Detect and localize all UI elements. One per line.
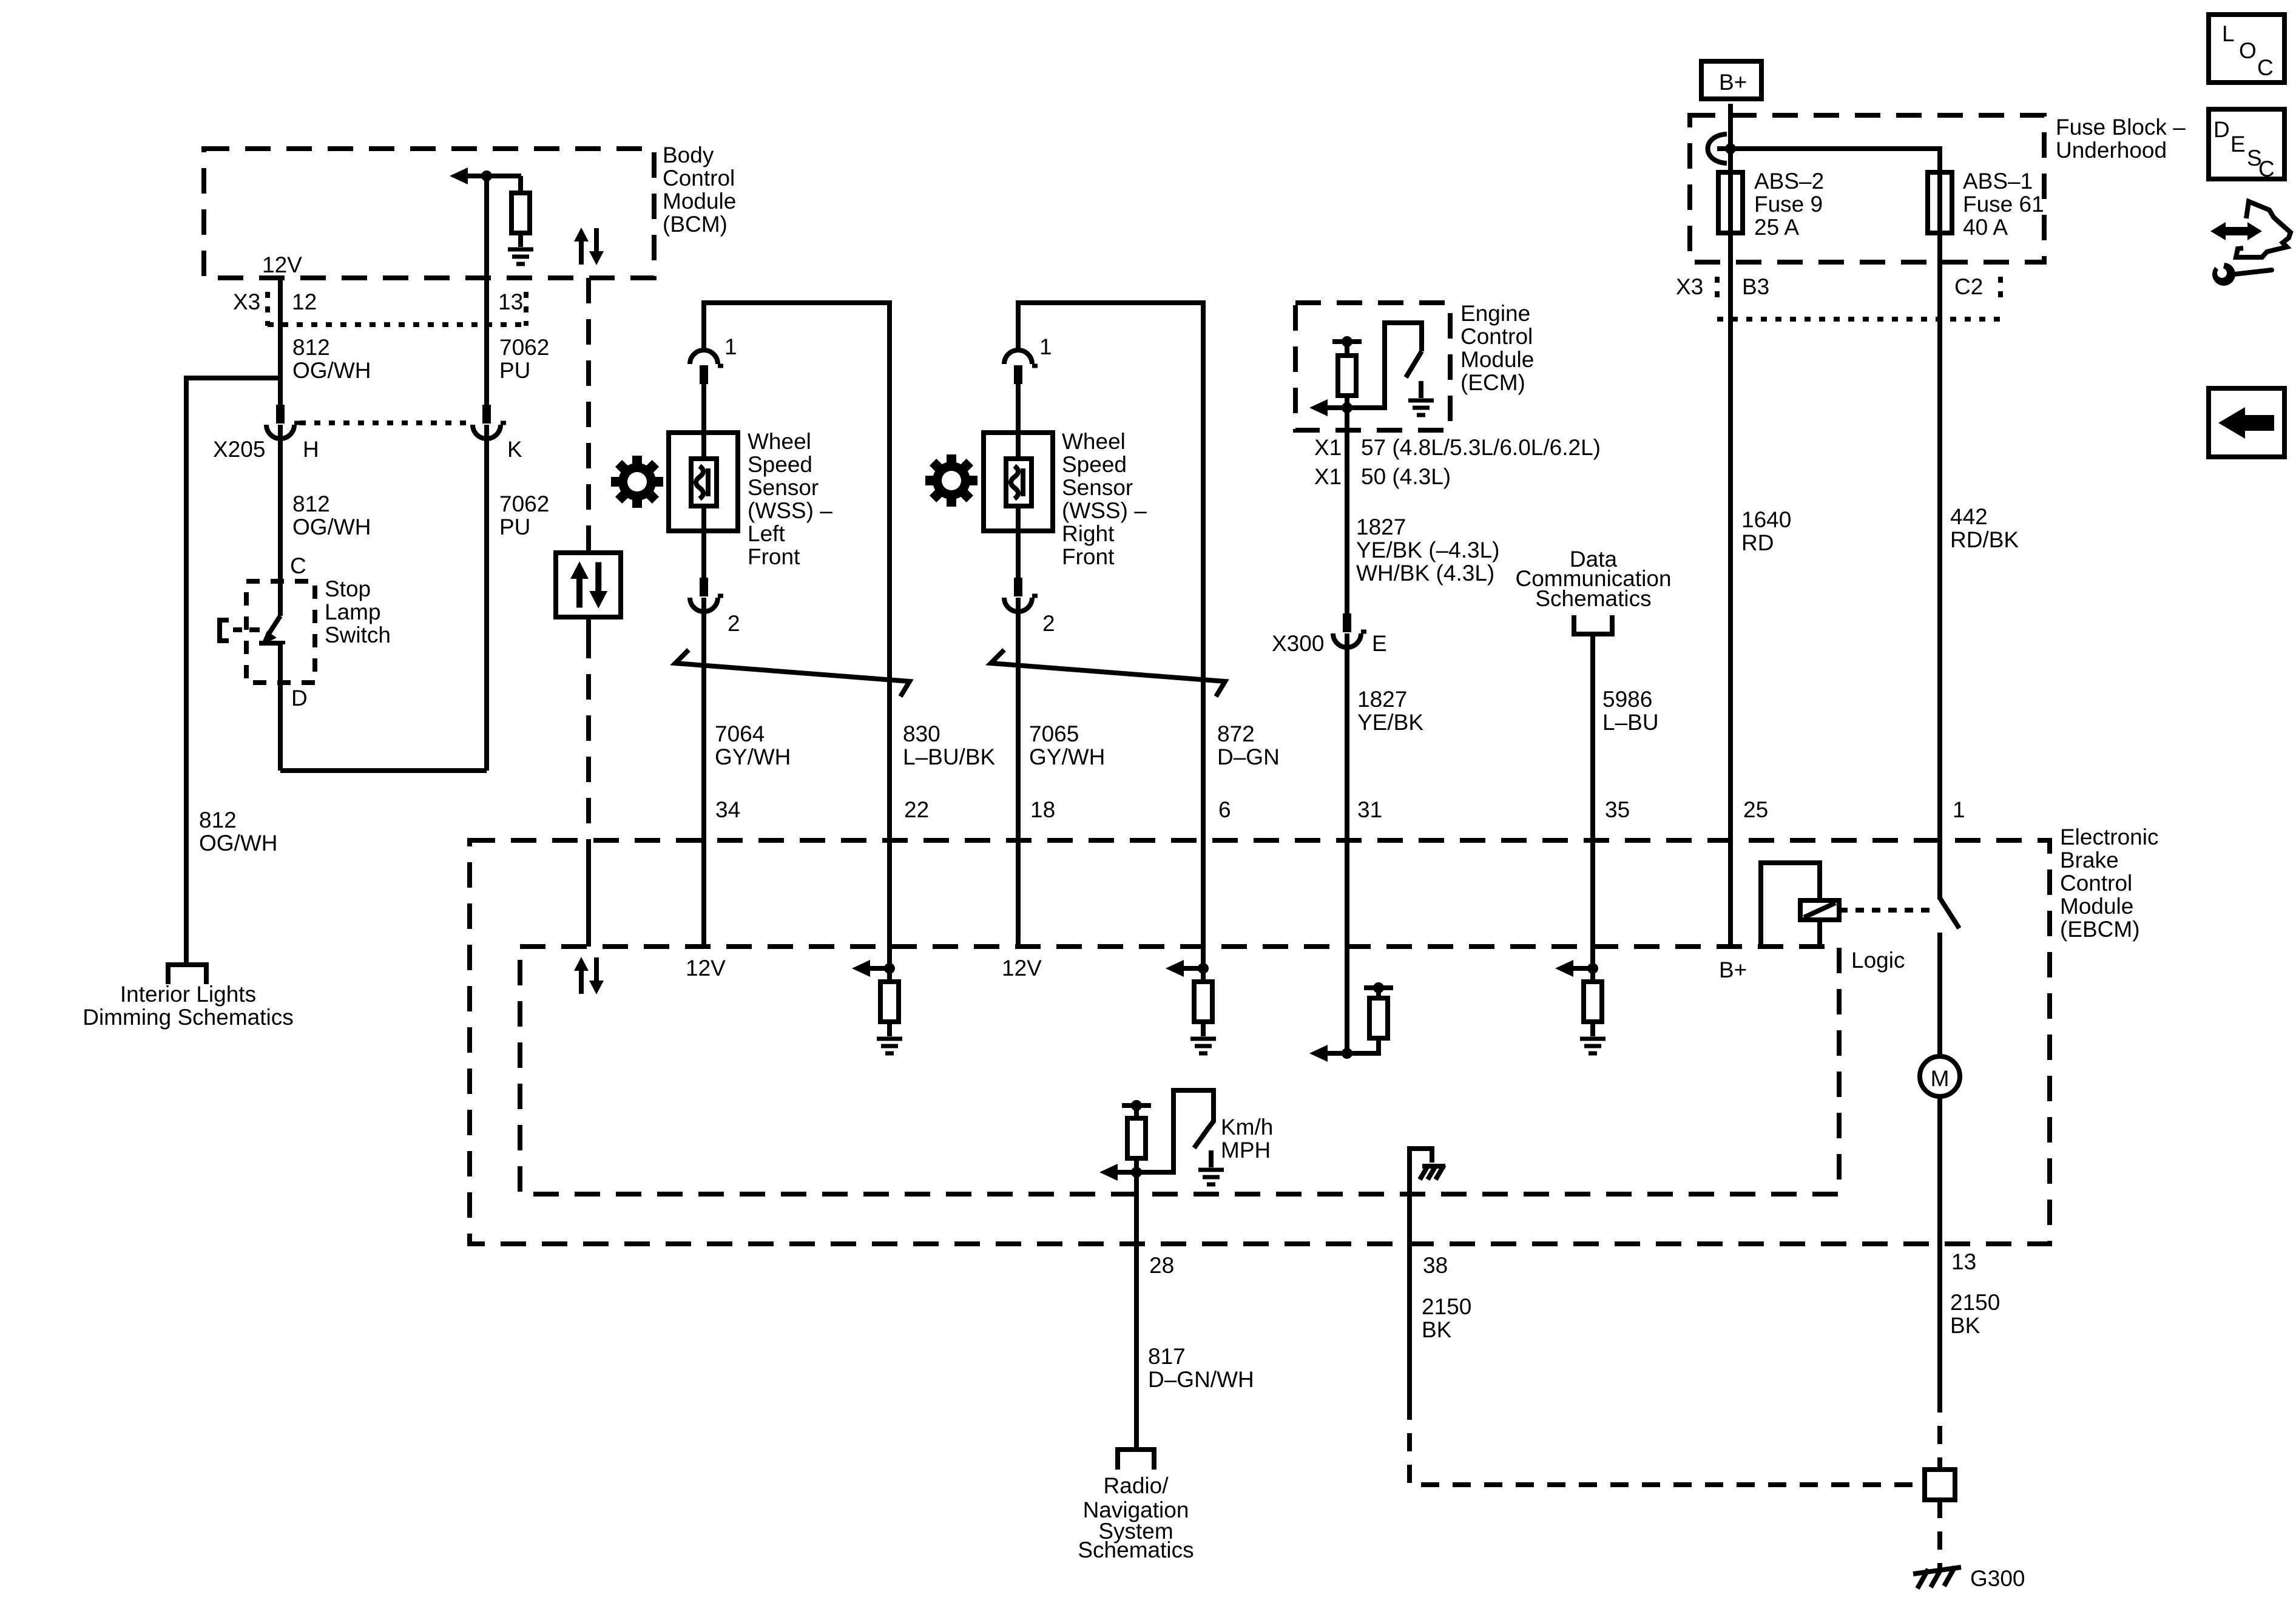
arrow (to other circuits) <box>1309 399 1328 416</box>
wire to pump motor <box>1937 933 1942 1058</box>
wire 7062 from BCM pin 13 <box>484 176 489 405</box>
pump motor M <box>1920 1056 1960 1096</box>
BCM label <box>663 143 736 237</box>
ground G300 <box>1913 1567 1961 1588</box>
WSS-R label <box>1062 429 1147 569</box>
dashed serial data wire (lower) <box>586 633 591 840</box>
svg-text:35: 35 <box>1605 797 1630 822</box>
svg-text:B+: B+ <box>1719 957 1747 982</box>
connector X3 dotted stubs <box>1715 277 1720 303</box>
arrow (signal to other circuits) <box>450 167 468 184</box>
svg-text:Right: Right <box>1062 521 1115 546</box>
svg-text:C: C <box>2257 55 2274 80</box>
svg-text:BK: BK <box>1422 1317 1452 1342</box>
svg-text:2: 2 <box>728 611 740 636</box>
svg-text:Front: Front <box>1062 544 1115 569</box>
svg-text:Wheel: Wheel <box>748 429 811 454</box>
svg-text:38: 38 <box>1423 1253 1448 1278</box>
wire pin1 to sensor <box>701 384 706 461</box>
svg-text:7062: 7062 <box>499 491 549 516</box>
svg-text:Control: Control <box>2060 871 2132 896</box>
svg-text:Fuse 61: Fuse 61 <box>1963 192 2044 217</box>
wire motor to pin 13 <box>1937 1096 1942 1394</box>
dashed to G300 <box>1937 1500 1942 1568</box>
wire 18 into logic box <box>1016 840 1021 947</box>
arrow (pin 31 signal) <box>1309 1045 1328 1062</box>
LOC box <box>2209 15 2284 83</box>
svg-text:Wheel: Wheel <box>1062 429 1126 454</box>
svg-text:7064: 7064 <box>715 721 765 746</box>
svg-text:Module: Module <box>2060 894 2133 919</box>
DESC box <box>2209 109 2284 179</box>
off-page bracket (radio) <box>1118 1450 1154 1470</box>
EBCM logic inner dashed box <box>520 947 1839 1194</box>
wire pin2 down to EBCM pin 34 <box>701 598 706 840</box>
ECM internal supply bar <box>1332 339 1362 344</box>
svg-text:12V: 12V <box>1002 956 1042 981</box>
svg-text:D: D <box>2213 117 2230 142</box>
svg-text:12V: 12V <box>262 252 302 277</box>
blade arrowhead <box>261 631 277 646</box>
wire 38 down <box>1407 1160 1412 1402</box>
svg-text:40 A: 40 A <box>1963 215 2008 240</box>
wire 28 down <box>1134 1172 1139 1448</box>
wire 1827 below X300 to EBCM pin 31 <box>1345 633 1349 1053</box>
Km/h MPH selector switch <box>1136 1090 1214 1172</box>
ECM output switch <box>1347 323 1422 408</box>
svg-text:1: 1 <box>1953 797 1965 822</box>
ground (pin 6) <box>1190 1039 1216 1053</box>
off-page bracket (data) <box>1574 615 1612 634</box>
fuse ABS-1 <box>1928 172 1952 233</box>
pull-up bar (VSS out) <box>1122 1103 1151 1108</box>
wire 34 into logic box <box>701 840 706 947</box>
svg-text:Fuse 9: Fuse 9 <box>1754 192 1823 217</box>
WSS-L label <box>748 429 832 569</box>
svg-text:ABS–2: ABS–2 <box>1754 169 1824 194</box>
node dot (pin 22) <box>884 963 895 974</box>
svg-text:C: C <box>2258 157 2275 181</box>
svg-text:Module: Module <box>1460 347 1534 372</box>
svg-text:C: C <box>290 553 306 578</box>
svg-text:GY/WH: GY/WH <box>715 744 791 769</box>
connector WSS-L pin 2 <box>690 578 723 612</box>
svg-text:6: 6 <box>1218 797 1231 822</box>
connector WSS-L pin 1 <box>690 350 723 384</box>
wire: switch output D to 7062 return <box>280 768 487 773</box>
svg-text:(BCM): (BCM) <box>663 212 728 237</box>
pull-up branch (pin 31) <box>1364 985 1393 990</box>
svg-text:Brake: Brake <box>2060 848 2119 873</box>
switch blade <box>268 616 280 635</box>
svg-text:57 (4.8L/5.3L/6.0L/6.2L): 57 (4.8L/5.3L/6.0L/6.2L) <box>1361 435 1601 460</box>
switch contact stub <box>1209 1150 1214 1167</box>
svg-text:H: H <box>303 437 319 462</box>
svg-text:1: 1 <box>1039 334 1052 359</box>
wire <box>887 1022 892 1036</box>
wire 35 circuit <box>1587 963 1598 974</box>
svg-text:Control: Control <box>1460 324 1533 349</box>
svg-text:RD: RD <box>1741 530 1774 555</box>
pedal linkage dashes <box>233 627 242 632</box>
Electronic Brake Control Module (EBCM) dashed box <box>470 840 2050 1244</box>
svg-text:X1: X1 <box>1314 464 1342 489</box>
svg-text:E: E <box>1372 631 1387 656</box>
svg-text:1640: 1640 <box>1741 507 1791 532</box>
svg-text:2150: 2150 <box>1950 1290 2000 1315</box>
svg-text:X300: X300 <box>1272 631 1324 656</box>
svg-text:E: E <box>2230 132 2246 157</box>
svg-text:Underhood: Underhood <box>2056 138 2167 163</box>
svg-text:1: 1 <box>724 334 737 359</box>
svg-text:G300: G300 <box>1970 1566 2025 1591</box>
switch contact bar <box>259 643 283 644</box>
svg-text:OG/WH: OG/WH <box>292 358 371 383</box>
ground (pin 35) <box>1580 1039 1606 1053</box>
feed terminal curl <box>1708 134 1727 163</box>
svg-text:D–GN/WH: D–GN/WH <box>1148 1367 1254 1392</box>
svg-text:13: 13 <box>1951 1249 1976 1274</box>
svg-text:442: 442 <box>1950 504 1988 529</box>
svg-text:YE/BK: YE/BK <box>1357 710 1423 735</box>
gear (wheel, right) <box>914 444 988 518</box>
svg-text:OG/WH: OG/WH <box>292 515 371 539</box>
wire <box>518 176 523 194</box>
svg-text:L: L <box>2222 21 2235 46</box>
switch contact stub <box>1419 381 1423 398</box>
wire <box>1345 342 1349 357</box>
svg-text:OG/WH: OG/WH <box>199 831 277 856</box>
svg-text:(ECM): (ECM) <box>1460 370 1525 395</box>
svg-text:830: 830 <box>903 721 940 746</box>
svg-text:Electronic: Electronic <box>2060 825 2158 849</box>
relay contact blade (pin 1) <box>1940 898 1959 928</box>
svg-text:GY/WH: GY/WH <box>1029 744 1105 769</box>
wire 7062 below X205 <box>484 425 489 771</box>
svg-text:O: O <box>2239 38 2257 63</box>
svg-text:34: 34 <box>715 797 740 822</box>
arrow (pin 22 signal) <box>852 960 870 977</box>
resistor (pin 31 pull-up) <box>1369 998 1388 1038</box>
resistor (pin 35 bias) <box>1584 982 1602 1022</box>
svg-text:D: D <box>291 686 308 711</box>
svg-text:25 A: 25 A <box>1754 215 1799 240</box>
svg-text:Schematics: Schematics <box>1078 1538 1194 1562</box>
connector X300 pin E <box>1333 613 1366 647</box>
svg-text:7062: 7062 <box>499 335 549 360</box>
serial data symbol (BCM) <box>574 228 604 265</box>
gear (wheel, left) <box>600 445 674 519</box>
wire 812 below X205 <box>278 425 283 616</box>
ground (ECM) <box>1408 400 1434 415</box>
svg-text:Dimming Schematics: Dimming Schematics <box>83 1005 293 1030</box>
WSS-L box <box>669 433 738 531</box>
connector X205 pin K <box>473 405 506 439</box>
wire to ABS-1 fuse <box>1730 149 1940 278</box>
ground (Km/h) <box>1198 1170 1224 1184</box>
node: VSS output junction <box>1342 402 1352 413</box>
wire 6 into logic box <box>1201 840 1206 983</box>
svg-text:5986: 5986 <box>1602 687 1652 712</box>
svg-text:B3: B3 <box>1742 274 1769 299</box>
wire 1640 RD to EBCM pin 25 <box>1728 278 1733 947</box>
svg-text:812: 812 <box>292 491 330 516</box>
svg-text:817: 817 <box>1148 1344 1186 1369</box>
wire loop top rail (WSS-L) <box>704 303 890 840</box>
WSS-R box <box>984 433 1053 531</box>
serial wire inside EBCM <box>586 840 591 947</box>
svg-text:Control: Control <box>663 166 735 191</box>
node dot <box>1342 336 1352 347</box>
serial data box symbol <box>556 553 621 617</box>
svg-text:Speed: Speed <box>748 452 812 477</box>
svg-text:7065: 7065 <box>1029 721 1079 746</box>
svg-text:Left: Left <box>748 521 785 546</box>
connector X205 dotted line <box>300 420 473 425</box>
wire <box>1345 396 1349 408</box>
splice square <box>1925 1470 1955 1500</box>
wire pin2 down to EBCM pin 18 <box>1016 598 1021 840</box>
svg-text:MPH: MPH <box>1221 1138 1271 1163</box>
wire 442 RD/BK to EBCM pin 1 <box>1937 278 1942 899</box>
wire B+ feed down <box>1728 104 1733 278</box>
relay coil <box>1800 900 1839 920</box>
svg-text:M: M <box>1931 1066 1950 1091</box>
svg-text:2150: 2150 <box>1422 1294 1471 1319</box>
svg-text:X3: X3 <box>233 289 260 314</box>
connector repair icon <box>2206 201 2291 286</box>
wire tee to interior lights dimming <box>186 378 280 965</box>
pedal linkage E bracket <box>220 620 229 641</box>
svg-text:812: 812 <box>292 335 330 360</box>
connector WSS-R pin 1 <box>1004 350 1038 384</box>
wire 812 from BCM pin 12 <box>278 278 283 405</box>
chassis ground (EBCM internal) <box>1410 1149 1432 1164</box>
svg-text:(EBCM): (EBCM) <box>2060 917 2140 942</box>
wire sensor to pin 2 <box>701 506 706 578</box>
connector WSS-R pin 2 <box>1004 578 1038 612</box>
resistor (BCM internal pull-up) <box>512 193 530 233</box>
svg-text:Km/h: Km/h <box>1221 1115 1273 1139</box>
off-page bracket <box>168 965 206 984</box>
svg-text:Lamp: Lamp <box>325 599 381 624</box>
svg-text:C2: C2 <box>1954 274 1983 299</box>
arrow (pin 35 signal) <box>1555 960 1573 977</box>
svg-text:(WSS) –: (WSS) – <box>1062 498 1147 523</box>
B+ terminal box <box>1701 61 1761 99</box>
svg-text:PU: PU <box>499 358 530 383</box>
wire 22 into logic box <box>887 840 892 983</box>
fuse ABS-2 <box>1718 172 1743 233</box>
stop lamp switch dashed box <box>246 581 315 683</box>
ECM label <box>1460 301 1534 395</box>
svg-text:PU: PU <box>499 515 530 539</box>
wire sensor to pin 2 <box>1016 506 1021 578</box>
Engine Control Module (ECM) dashed box <box>1295 303 1450 430</box>
dashed 2150 BK run <box>1410 1402 1925 1485</box>
resistor (pin 6 bias) <box>1194 982 1212 1022</box>
svg-text:L–BU: L–BU <box>1602 710 1659 735</box>
WSS-L sensor element <box>691 459 717 506</box>
svg-text:RD/BK: RD/BK <box>1950 527 2019 552</box>
wire pin1 to sensor <box>1016 384 1021 461</box>
dashed serial data wire (BCM to EBCM) <box>586 278 591 553</box>
svg-text:Stop: Stop <box>325 576 371 601</box>
relay mechanical link (dotted) <box>1839 908 1934 913</box>
svg-text:1827: 1827 <box>1357 687 1407 712</box>
Body Control Module (BCM) dashed box <box>204 149 654 278</box>
svg-text:D–GN: D–GN <box>1217 744 1280 769</box>
svg-text:Schematics: Schematics <box>1535 586 1651 611</box>
ground (BCM internal) <box>508 249 533 264</box>
svg-text:Engine: Engine <box>1460 301 1530 326</box>
svg-text:X1: X1 <box>1314 435 1342 460</box>
svg-text:Switch: Switch <box>325 623 391 647</box>
svg-text:Module: Module <box>663 189 736 214</box>
svg-text:Sensor: Sensor <box>748 475 819 500</box>
svg-text:12: 12 <box>292 289 317 314</box>
node: B+ distribution dot <box>1725 143 1736 154</box>
node dot (pin 6) <box>1198 963 1209 974</box>
svg-text:Radio/: Radio/ <box>1104 1473 1169 1498</box>
wire 31 tail junction <box>1342 1048 1352 1059</box>
svg-text:K: K <box>507 437 522 462</box>
svg-text:B+: B+ <box>1719 70 1747 95</box>
svg-text:WH/BK (4.3L): WH/BK (4.3L) <box>1356 561 1494 586</box>
ground (pin 22) <box>877 1039 902 1053</box>
resistor (ECM pull-up) <box>1338 356 1356 396</box>
wire: BCM internal output to stop lamp feed <box>468 174 521 178</box>
wire loop top rail (WSS-R) <box>1018 303 1203 840</box>
resistor (VSS out) <box>1127 1118 1146 1158</box>
svg-text:25: 25 <box>1743 797 1768 822</box>
svg-text:Front: Front <box>748 544 800 569</box>
connector X3 dotted stubs <box>265 292 270 326</box>
svg-text:BK: BK <box>1950 1313 1980 1338</box>
wire 1827 from ECM <box>1345 408 1349 614</box>
svg-text:(WSS) –: (WSS) – <box>748 498 832 523</box>
svg-text:872: 872 <box>1217 721 1255 746</box>
Fuse Block - Underhood dashed box <box>1690 115 2044 262</box>
svg-text:18: 18 <box>1030 797 1055 822</box>
svg-text:12V: 12V <box>686 956 726 981</box>
svg-text:X205: X205 <box>213 437 265 462</box>
svg-text:Sensor: Sensor <box>1062 475 1133 500</box>
arrow (pin 6 signal) <box>1166 960 1184 977</box>
dashed 2150 BK to splice <box>1937 1394 1942 1470</box>
svg-text:Fuse Block –: Fuse Block – <box>2056 115 2186 140</box>
EBCM label <box>2060 825 2158 942</box>
connector X3 dotted line <box>1717 317 2001 322</box>
svg-text:Speed: Speed <box>1062 452 1127 477</box>
back arrow box <box>2209 388 2284 457</box>
svg-text:22: 22 <box>904 797 929 822</box>
connector X205 pin H <box>266 405 300 439</box>
svg-text:Logic: Logic <box>1851 948 1905 973</box>
svg-text:2: 2 <box>1042 611 1055 636</box>
svg-text:812: 812 <box>199 808 237 832</box>
svg-text:Body: Body <box>663 143 714 167</box>
svg-text:YE/BK (–4.3L): YE/BK (–4.3L) <box>1356 538 1500 562</box>
svg-text:28: 28 <box>1149 1253 1174 1278</box>
svg-text:Interior Lights: Interior Lights <box>120 982 256 1007</box>
svg-text:1827: 1827 <box>1356 515 1406 539</box>
wire <box>1201 1022 1206 1036</box>
wire to pin D <box>278 643 283 771</box>
arrow (VSS signal) <box>1099 1164 1118 1181</box>
wire <box>518 233 523 247</box>
svg-text:ABS–1: ABS–1 <box>1963 169 2033 194</box>
svg-text:50 (4.3L): 50 (4.3L) <box>1361 464 1451 489</box>
connector X3 dotted line <box>268 322 526 327</box>
svg-text:31: 31 <box>1357 797 1382 822</box>
wire 5986 to EBCM pin 35 <box>1590 634 1595 968</box>
svg-text:L–BU/BK: L–BU/BK <box>903 744 996 769</box>
node dot (pin 28) <box>1131 1167 1142 1178</box>
serial data symbol (EBCM) <box>574 957 604 994</box>
resistor (pin 22 bias) <box>880 982 899 1022</box>
svg-text:13: 13 <box>498 289 523 314</box>
twisted pair marker (left) <box>675 650 910 697</box>
WSS-R sensor element <box>1006 459 1032 506</box>
node: junction dot on 7062 output <box>481 170 492 181</box>
svg-text:X3: X3 <box>1676 274 1703 299</box>
pump motor relay coil loop <box>1761 863 1820 947</box>
twisted pair marker (right) <box>991 650 1225 697</box>
